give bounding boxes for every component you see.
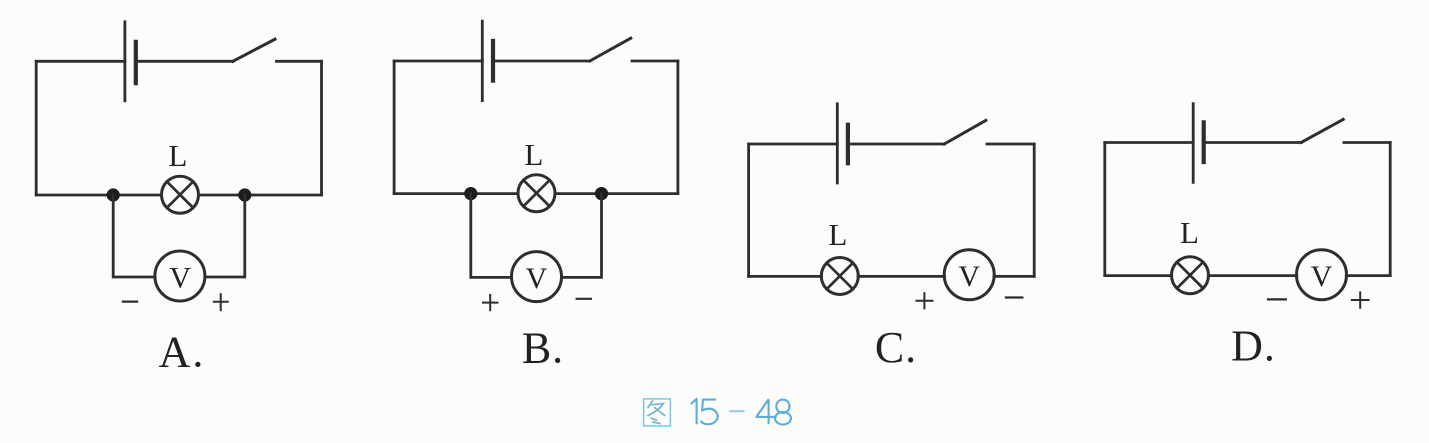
switch S3 (circuit C, open) [944,120,986,144]
wire: D left vertical [1103,143,1106,276]
switch S2 (circuit B, open) [590,38,631,61]
wire: B battery to switch [493,60,590,63]
battery BT1 (circuit A) [125,22,136,101]
polarity label minus (circuit A) [122,301,138,303]
polarity label minus (circuit C) [1005,296,1024,298]
caption digit 4 [756,399,776,424]
lamp L (circuit C) [821,258,858,295]
wire: C bottom left segment [749,275,822,278]
polarity label minus (circuit D) [1267,298,1287,300]
wire: D voltmeter to lamp [1208,274,1297,277]
lamp L (circuit D) [1172,257,1209,294]
wire: A switch to right corner [277,60,322,63]
wire: A left vertical [35,61,38,195]
battery BT2 (circuit B) [482,21,493,100]
wire: A bottom left segment [36,194,161,197]
wire: D switch to right corner [1344,141,1390,144]
wire: C left vertical [747,144,750,276]
caption digit 5 [701,400,718,425]
polarity label plus (circuit A) [213,293,229,311]
wire: D top-left segment [1105,141,1193,144]
node: junction dot left (circuit B) [464,187,477,200]
svg-text:A.: A. [159,327,206,376]
wire: A battery to switch [136,60,233,63]
polarity label plus (circuit D) [1351,291,1370,308]
wire: C top-left segment [749,143,838,146]
wire: D battery to switch [1204,141,1302,144]
wire: C right vertical [1033,144,1036,276]
wire: D right vertical [1389,143,1392,276]
wire: B left vertical [393,61,396,194]
svg-text:L: L [828,217,847,252]
svg-text:D.: D. [1231,322,1276,371]
caption character 图 (inner strokes) [648,401,665,424]
wire: B top-left segment [394,60,482,63]
caption digit 8 [775,400,791,425]
wire: C switch to right corner [987,143,1034,146]
wire: A top-left segment (left corner to battery) [36,60,125,63]
svg-text:L: L [524,137,543,172]
wire: B voltmeter branch left [471,194,512,278]
wire: B bottom right segment [555,192,678,195]
caption character 图 (box) [644,399,671,426]
polarity label plus (circuit C) [915,292,933,309]
voltmeter V (circuit A) [155,251,205,301]
svg-text:V: V [169,262,191,295]
wire: B bottom left segment [394,192,518,195]
wire: A bottom right segment [198,194,321,197]
battery BT3 (circuit C) [837,104,848,183]
wire: A voltmeter branch right [205,195,245,277]
svg-text:L: L [1180,215,1199,250]
polarity label plus (circuit B) [482,294,499,311]
svg-text:V: V [1311,260,1333,293]
voltmeter V (circuit C) [944,250,994,300]
wire: C battery to switch [848,143,944,146]
wire: B voltmeter branch right [562,194,602,278]
polarity label minus (circuit B) [576,298,593,300]
battery BT4 (circuit D) [1193,104,1204,183]
wire: A voltmeter branch left [113,195,155,277]
caption dash [729,410,744,412]
lamp L (circuit A) [162,176,199,213]
svg-text:V: V [958,260,980,293]
lamp L (circuit B) [518,175,555,212]
wire: D bottom right segment [1346,274,1390,277]
svg-text:V: V [526,262,548,295]
caption digit 1 [691,399,697,424]
svg-text:B.: B. [522,324,564,373]
wire: C voltmeter to lamp [858,275,944,278]
voltmeter V (circuit D) [1297,250,1347,300]
wire: C bottom right segment [994,275,1034,278]
switch S4 (circuit D, open) [1301,119,1343,142]
wire: D bottom left segment [1105,274,1172,277]
node: junction dot right (circuit A) [238,188,251,201]
wire: B switch to right corner [632,60,678,63]
switch S1 (circuit A, open) [233,39,275,61]
svg-text:C.: C. [875,323,917,372]
voltmeter V (circuit B) [512,252,562,302]
svg-text:L: L [168,138,187,173]
node: junction dot right (circuit B) [595,187,608,200]
wire: A right vertical [320,61,323,195]
node: junction dot left (circuit A) [107,188,120,201]
wire: B right vertical [677,61,680,194]
